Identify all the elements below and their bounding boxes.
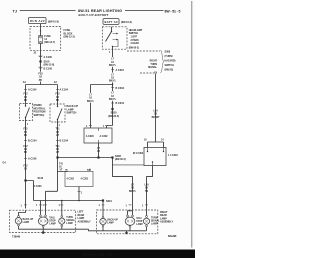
svg-text:BK/YL: BK/YL xyxy=(109,64,117,67)
left ground bus wire xyxy=(19,226,97,231)
svg-text:LAMP: LAMP xyxy=(49,223,56,226)
svg-text:TAIL/: TAIL/ xyxy=(136,217,142,220)
svg-text:PK: PK xyxy=(24,151,28,154)
feed box RUN A22 xyxy=(29,18,47,24)
svg-text:1: 1 xyxy=(99,205,101,207)
connector C310 xyxy=(111,69,114,71)
svg-text:16: 16 xyxy=(144,140,147,142)
in-line connectors C320 / C302 box xyxy=(84,128,112,143)
splice S100 xyxy=(39,60,41,62)
wire back-up switch output down xyxy=(57,122,59,158)
wire fuse output down to tee xyxy=(40,44,42,85)
left back-up lamp xyxy=(19,210,26,215)
svg-text:A C104: A C104 xyxy=(28,89,37,92)
svg-text:(8W-30-5): (8W-30-5) xyxy=(108,115,119,118)
connector A C104 left xyxy=(24,89,27,91)
svg-text:A C100: A C100 xyxy=(44,56,53,59)
svg-text:M 4 C302: M 4 C302 xyxy=(133,152,144,155)
wire turn feed to right lamp xyxy=(147,166,153,216)
svg-text:(8W-10-8): (8W-10-8) xyxy=(48,20,59,23)
left rear lamp assembly dashed box xyxy=(9,210,75,232)
right back-up lamp xyxy=(102,217,104,219)
wire code xyxy=(109,73,115,83)
left ground splice xyxy=(42,229,44,232)
svg-text:S140: S140 xyxy=(38,177,44,180)
svg-text:PK: PK xyxy=(24,99,28,102)
wire right branch down to back-up switch xyxy=(57,85,59,105)
svg-text:A C320: A C320 xyxy=(34,185,43,188)
in-line connector box C302/C303 xyxy=(65,171,93,186)
wire link S308 label to connector box xyxy=(113,164,145,166)
connector A C104 right xyxy=(56,89,59,91)
svg-text:B C104: B C104 xyxy=(60,140,69,143)
svg-text:18: 18 xyxy=(59,167,62,169)
right rear lamp assembly dashed box xyxy=(97,210,158,234)
svg-text:BK/YL: BK/YL xyxy=(87,100,95,103)
connector B C104 xyxy=(56,139,59,141)
wire connector box output xyxy=(98,143,100,158)
svg-text:1: 1 xyxy=(27,124,29,126)
svg-text:(8W-12-2): (8W-12-2) xyxy=(64,36,75,39)
svg-text:SWITCH: SWITCH xyxy=(129,32,139,35)
svg-text:PK: PK xyxy=(24,134,28,137)
svg-text:B C100: B C100 xyxy=(44,67,53,70)
svg-text:LAMP: LAMP xyxy=(23,221,30,224)
svg-text:BATT A0: BATT A0 xyxy=(105,20,119,24)
wire branch to connector box xyxy=(91,84,113,86)
svg-text:ASSEMBLY: ASSEMBLY xyxy=(78,220,91,223)
svg-text:8W - 51 - 5: 8W - 51 - 5 xyxy=(165,10,181,14)
svg-text:1: 1 xyxy=(36,205,38,207)
svg-text:(8W-10-8): (8W-10-8) xyxy=(121,21,132,24)
svg-text:B C310: B C310 xyxy=(116,102,125,105)
svg-text:PK: PK xyxy=(39,79,43,82)
svg-text:ASSEMBLY: ASSEMBLY xyxy=(160,221,173,224)
svg-text:STOP: STOP xyxy=(136,221,143,223)
wire connector box output down to bus xyxy=(78,187,80,201)
tail lamp feed wire L7 xyxy=(107,49,113,128)
svg-text:1: 1 xyxy=(59,205,61,207)
right turn signal lamp xyxy=(146,216,148,218)
svg-text:1: 1 xyxy=(43,205,45,207)
svg-text:1: 1 xyxy=(109,52,111,54)
svg-text:A C302: A C302 xyxy=(100,135,109,138)
fuse block dashed box xyxy=(30,27,61,51)
svg-text:1: 1 xyxy=(59,125,61,127)
footer black band xyxy=(0,250,195,258)
splice S301 xyxy=(102,199,104,201)
svg-text:SIGNAL: SIGNAL xyxy=(66,219,75,222)
connector B C100 xyxy=(39,67,42,68)
wire left branch down xyxy=(25,85,27,104)
svg-text:LAMP: LAMP xyxy=(107,222,114,225)
stub to stop filament xyxy=(45,201,47,215)
svg-text:TJ: TJ xyxy=(13,10,17,14)
svg-text:BACK-UP: BACK-UP xyxy=(107,219,118,222)
svg-text:SWITCH: SWITCH xyxy=(67,112,77,115)
connector C310 second xyxy=(111,102,114,104)
svg-text:BK/YL: BK/YL xyxy=(109,98,117,101)
svg-text:LAMP: LAMP xyxy=(66,222,73,225)
svg-text:1: 1 xyxy=(126,205,128,207)
wire right turn feed down xyxy=(155,74,157,143)
back-up lamp switch xyxy=(50,104,65,122)
svg-text:4 C302: 4 C302 xyxy=(67,177,75,180)
svg-text:1: 1 xyxy=(81,193,83,195)
headlamp switch dashed box xyxy=(102,27,127,49)
right page border xyxy=(191,1,193,248)
connector A C100 xyxy=(39,55,42,56)
svg-text:8Da398 22b 14P: 8Da398 22b 14P xyxy=(83,253,113,257)
connector B C302 xyxy=(111,87,114,89)
svg-text:S301: S301 xyxy=(106,200,112,203)
svg-text:(TURN/: (TURN/ xyxy=(165,55,173,58)
svg-text:3 HEAD: 3 HEAD xyxy=(131,42,140,45)
splice S140 and jog to bus xyxy=(24,179,26,181)
svg-text:TURN: TURN xyxy=(151,217,158,219)
svg-text:BK/WT: BK/WT xyxy=(152,116,160,119)
svg-text:A C310: A C310 xyxy=(116,69,125,72)
junction from connector box output xyxy=(97,156,99,158)
svg-text:BUILT-UP-EXPORT: BUILT-UP-EXPORT xyxy=(79,13,109,17)
svg-text:T41: T41 xyxy=(59,162,64,165)
wire back-up feed continues down xyxy=(57,158,59,192)
wire from RUN A22 into fuse xyxy=(40,24,42,36)
wire jog to stop filament feed xyxy=(46,191,58,200)
svg-text:TN: TN xyxy=(145,190,148,193)
wire branch into connector box xyxy=(58,171,68,174)
svg-text:PK: PK xyxy=(56,99,60,102)
svg-text:14: 14 xyxy=(161,139,164,142)
svg-text:32: 32 xyxy=(34,52,37,54)
wire tee into connector box xyxy=(148,142,164,147)
svg-text:1: 1 xyxy=(142,205,144,207)
svg-text:A C320: A C320 xyxy=(86,135,95,138)
wire tail feed from S308 to right lamp xyxy=(113,158,133,211)
svg-text:2 PARK: 2 PARK xyxy=(131,39,140,42)
svg-text:SWITCH: SWITCH xyxy=(165,64,175,67)
svg-text:SWITCH): SWITCH) xyxy=(34,114,45,117)
wire code F32 18 PK xyxy=(38,72,43,82)
wire code on branch xyxy=(87,93,93,103)
right ground splice xyxy=(126,231,128,233)
connector box C302 right xyxy=(144,147,166,165)
svg-text:STOP: STOP xyxy=(49,221,56,223)
svg-text:TURN: TURN xyxy=(66,217,73,219)
svg-text:G4: G4 xyxy=(3,162,7,165)
splice junction at back-up wire xyxy=(56,156,58,158)
wire branch left leg down xyxy=(90,85,92,129)
park/neutral position switch xyxy=(20,104,33,121)
stub down to right back-up lamp xyxy=(102,201,104,217)
tail feed bus wire xyxy=(58,157,113,159)
svg-text:8Da398: 8Da398 xyxy=(168,235,177,238)
svg-text:18: 18 xyxy=(97,150,100,153)
svg-text:HAZARD): HAZARD) xyxy=(165,60,176,63)
svg-text:A C104: A C104 xyxy=(60,89,69,92)
svg-text:RUN A22: RUN A22 xyxy=(30,19,45,23)
svg-text:A2: A2 xyxy=(54,81,58,84)
lamp feed bus xyxy=(34,200,104,202)
svg-text:BK/YL: BK/YL xyxy=(129,190,137,193)
wire tee to both switches xyxy=(26,84,58,86)
svg-text:SIGNAL: SIGNAL xyxy=(151,219,160,222)
left turn signal lamp xyxy=(61,201,63,216)
svg-text:BACK-UP: BACK-UP xyxy=(23,218,34,221)
svg-text:VT: VT xyxy=(56,134,60,137)
svg-text:B C302: B C302 xyxy=(116,87,125,90)
left tail/stop lamp xyxy=(38,217,48,225)
svg-text:B C104: B C104 xyxy=(28,140,37,143)
header rule left xyxy=(20,10,76,12)
dashed link upper to turn/hazard switch xyxy=(127,50,160,52)
svg-text:A2: A2 xyxy=(23,81,27,84)
svg-text:LAMP: LAMP xyxy=(136,223,143,226)
svg-text:(8W-52): (8W-52) xyxy=(165,69,174,72)
connector C106 xyxy=(24,157,27,159)
svg-text:(8W-30-5): (8W-30-5) xyxy=(115,158,126,161)
svg-text:SIGNAL: SIGNAL xyxy=(148,66,158,69)
svg-text:18: 18 xyxy=(24,168,27,171)
svg-text:(8W-12-8): (8W-12-8) xyxy=(44,64,55,67)
wire park/neutral switch output down to left lamp box xyxy=(25,121,27,209)
svg-text:A C106: A C106 xyxy=(28,158,37,161)
svg-text:S308: S308 xyxy=(165,51,171,54)
fuse F14 xyxy=(38,36,42,44)
svg-text:4 C303: 4 C303 xyxy=(81,177,89,180)
brace to switch note xyxy=(160,50,163,73)
connector B C104 xyxy=(24,139,27,141)
feed box BATT A0 xyxy=(103,19,119,25)
splice S308 xyxy=(111,156,113,158)
svg-text:VT: VT xyxy=(56,151,60,154)
header rule right xyxy=(125,10,164,12)
svg-text:1 4 C302: 1 4 C302 xyxy=(168,154,178,157)
headlamp switch symbol xyxy=(111,31,112,32)
svg-text:1 OFF: 1 OFF xyxy=(131,37,138,39)
svg-text:LAMP: LAMP xyxy=(151,222,158,225)
stub to tail filament xyxy=(40,201,42,215)
right ground bus wire xyxy=(97,227,147,231)
dashed link lower to turn/hazard switch xyxy=(140,72,157,74)
svg-text:TJ8946: TJ8946 xyxy=(12,235,21,238)
svg-text:1: 1 xyxy=(21,205,23,207)
wire code L7 18 BK/YL xyxy=(109,57,115,67)
svg-text:(8W-12-7): (8W-12-7) xyxy=(44,41,55,44)
svg-text:(8W-50-2): (8W-50-2) xyxy=(129,47,140,49)
svg-text:TAIL/: TAIL/ xyxy=(49,217,55,220)
wire code xyxy=(109,91,115,101)
svg-text:BK/YL: BK/YL xyxy=(109,80,117,83)
splice S310 xyxy=(111,108,113,110)
right tail/stop lamp xyxy=(128,211,133,215)
